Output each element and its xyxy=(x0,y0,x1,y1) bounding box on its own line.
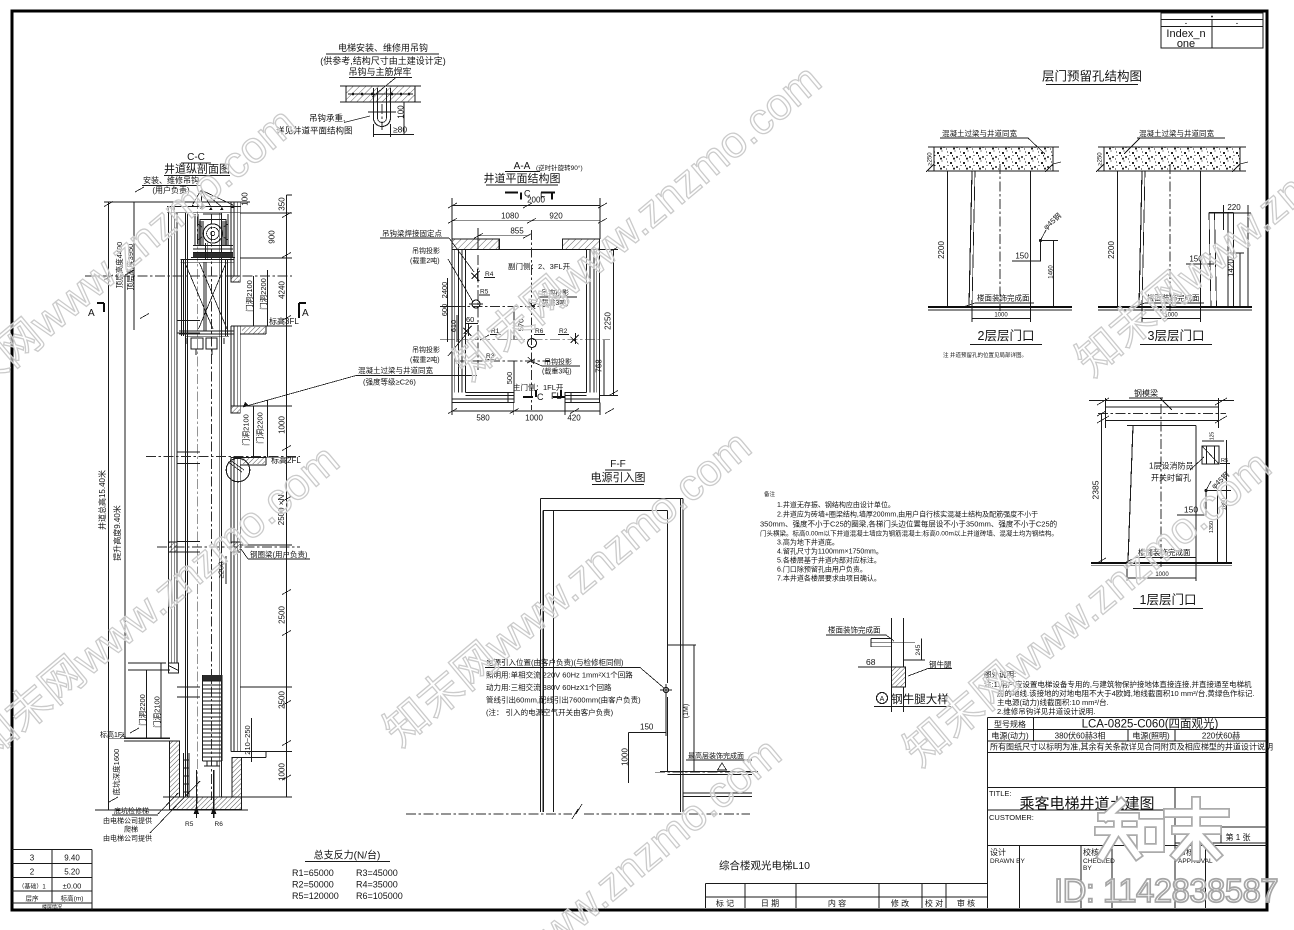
svg-text:(供参考,结构尺寸由土建设计定): (供参考,结构尺寸由土建设计定) xyxy=(320,55,446,66)
svg-text:动力用:三相交流 380V 60HzX1个回路: 动力用:三相交流 380V 60HzX1个回路 xyxy=(486,682,612,692)
svg-text:混凝土过梁与井道同宽: 混凝土过梁与井道同宽 xyxy=(1139,128,1214,138)
svg-text:1层层门口: 1层层门口 xyxy=(1140,592,1197,607)
svg-text:125: 125 xyxy=(1210,432,1216,441)
bottom wall with door gap xyxy=(452,393,600,403)
svg-text:R5: R5 xyxy=(480,289,489,296)
svg-text:门洞2200: 门洞2200 xyxy=(256,412,265,444)
small hole with hatch xyxy=(1202,446,1219,464)
svg-text:LCA-0825-C060(四面观光): LCA-0825-C060(四面观光) xyxy=(1082,717,1219,731)
svg-text:门洞2200: 门洞2200 xyxy=(259,278,268,310)
svg-text:2200: 2200 xyxy=(937,241,946,259)
svg-text:2200: 2200 xyxy=(1107,241,1116,259)
hook U shape xyxy=(374,88,391,127)
door outline xyxy=(1127,425,1196,427)
svg-text:9.40: 9.40 xyxy=(64,854,80,863)
level dash-dot lines xyxy=(85,275,292,277)
svg-text:吊钩投影: 吊钩投影 xyxy=(412,246,440,255)
svg-text:2.井道应为砖墙+圈梁结构,墙厚200mm,由用户自行核实混: 2.井道应为砖墙+圈梁结构,墙厚200mm,由用户自行核实混凝土结构及配筋强度不… xyxy=(777,510,1038,519)
svg-text:层门预留孔结构图: 层门预留孔结构图 xyxy=(1042,69,1142,84)
right dims xyxy=(604,312,613,330)
1FL floor left xyxy=(124,738,170,741)
column/pipe xyxy=(892,618,904,712)
知末 logo (bottom right) xyxy=(1099,801,1225,857)
svg-text:R5=120000: R5=120000 xyxy=(292,891,339,901)
svg-text:2层层门口: 2层层门口 xyxy=(978,328,1035,343)
svg-text:门洞2100: 门洞2100 xyxy=(245,280,254,312)
svg-text:标高3FL: 标高3FL xyxy=(269,316,299,326)
svg-text:门头横梁。标高0.00m以下井道混凝土墙应为钢筋混凝土;标高: 门头横梁。标高0.00m以下井道混凝土墙应为钢筋混凝土;标高0.00m以上井道砖… xyxy=(760,529,1058,538)
svg-text:电源引入图: 电源引入图 xyxy=(591,470,646,484)
svg-text:由电梯公司提供: 由电梯公司提供 xyxy=(103,834,152,843)
svg-text:2: 2 xyxy=(30,868,35,877)
svg-text:1000: 1000 xyxy=(278,763,287,781)
svg-text:R6: R6 xyxy=(215,821,224,828)
ropes xyxy=(206,243,208,259)
svg-text:R6=105000: R6=105000 xyxy=(356,891,403,901)
svg-text:(载重2吨): (载重2吨) xyxy=(410,355,440,364)
C FL marks bottom xyxy=(523,390,565,397)
shaft outline xyxy=(541,499,544,813)
2385 dim xyxy=(1091,480,1101,499)
left dim chain xyxy=(108,202,110,810)
concrete slab with rebar xyxy=(346,86,415,102)
car diagonal braces xyxy=(185,263,227,329)
svg-text:总支反力(N/台): 总支反力(N/台) xyxy=(314,849,381,862)
dim ≥200 xyxy=(217,562,226,579)
svg-text:备注: 备注 xyxy=(764,490,776,498)
guide rails xyxy=(186,213,188,797)
svg-text:混凝土过梁与井道同宽: 混凝土过梁与井道同宽 xyxy=(942,128,1017,138)
svg-text:100: 100 xyxy=(241,192,250,206)
index_n one box top right xyxy=(1161,13,1263,50)
bottom dims xyxy=(452,410,600,412)
1460 dim xyxy=(1049,265,1055,279)
svg-text:标 记: 标 记 xyxy=(716,898,734,908)
svg-text:注 井道预留孔的位置见局部详图。: 注 井道预留孔的位置见局部详图。 xyxy=(943,351,1027,359)
svg-text:2385: 2385 xyxy=(1091,480,1101,499)
svg-text:所有图纸尺寸以标明为准,其余有关条款详见合同附页及相应梯型的: 所有图纸尺寸以标明为准,其余有关条款详见合同附页及相应梯型的井道设计说明 xyxy=(990,742,1273,752)
shaft walls: top hatched blocks xyxy=(452,239,499,249)
svg-text:照明用:单相交流 220V 60Hz 1mm²X1个回路: 照明用:单相交流 220V 60Hz 1mm²X1个回路 xyxy=(486,670,633,680)
svg-text:钢圈梁(用户负责): 钢圈梁(用户负责) xyxy=(250,549,308,559)
svg-text:型号规格: 型号规格 xyxy=(994,719,1026,729)
car floor / safety xyxy=(179,330,234,332)
svg-text:设计: 设计 xyxy=(990,847,1006,857)
svg-text:由电梯公司提供: 由电梯公司提供 xyxy=(103,816,152,825)
svg-text:4240: 4240 xyxy=(278,281,287,299)
svg-text:楼层情况: 楼层情况 xyxy=(42,904,62,911)
svg-text:2500: 2500 xyxy=(278,606,287,624)
svg-text:1000: 1000 xyxy=(994,313,1008,319)
svg-text:内 容: 内 容 xyxy=(828,898,846,908)
svg-text:CUSTOMER:: CUSTOMER: xyxy=(989,813,1034,822)
svg-text:ID: 1142838587: ID: 1142838587 xyxy=(1054,872,1278,909)
leader fan to hooks xyxy=(193,190,233,207)
svg-text:井道平面结构图: 井道平面结构图 xyxy=(484,171,561,185)
svg-text:5.各楼层基于井道内部对应标注。: 5.各楼层基于井道内部对应标注。 xyxy=(777,556,881,565)
right wall verticals (gaps at 3F and 2F doors) xyxy=(231,202,240,276)
wall outlines xyxy=(452,239,466,403)
2F door head block xyxy=(231,406,240,413)
svg-text:R3=45000: R3=45000 xyxy=(356,868,398,878)
top floor slab right xyxy=(660,772,758,797)
svg-text:1080: 1080 xyxy=(501,212,519,221)
svg-text:2000: 2000 xyxy=(527,196,545,205)
2FL slab right with sill detail circle xyxy=(231,457,266,465)
svg-text:修 改: 修 改 xyxy=(891,898,909,908)
svg-text:7.本井道各楼层要求由项目确认。: 7.本井道各楼层要求由项目确认。 xyxy=(777,574,881,583)
svg-text:68: 68 xyxy=(866,657,876,667)
bottom break line xyxy=(406,813,572,815)
bracket hatched xyxy=(892,667,906,687)
svg-text:R1=65000: R1=65000 xyxy=(292,868,334,878)
svg-text:楼面装饰完成面: 楼面装饰完成面 xyxy=(828,625,881,635)
svg-text:开关时留孔: 开关时留孔 xyxy=(1151,473,1191,483)
1F door dims xyxy=(146,670,148,738)
pit ladder xyxy=(184,753,190,797)
svg-text:井道总高15.40米: 井道总高15.40米 xyxy=(97,470,107,530)
svg-text:≥250: ≥250 xyxy=(1098,152,1104,166)
svg-text:FL: FL xyxy=(551,391,562,401)
svg-text:(强度等级≥C26): (强度等级≥C26) xyxy=(363,377,416,387)
svg-text:混凝土过梁与井道同宽: 混凝土过梁与井道同宽 xyxy=(358,365,433,375)
svg-text:标高(m): 标高(m) xyxy=(61,894,84,903)
svg-text:380伏60赫3相: 380伏60赫3相 xyxy=(1055,731,1106,741)
svg-text:电源(动力): 电源(动力) xyxy=(991,731,1029,741)
hook projection circles xyxy=(472,300,480,308)
1000 dim xyxy=(971,307,973,322)
centerlines xyxy=(531,230,533,410)
svg-text:审 核: 审 核 xyxy=(957,898,975,908)
svg-text:F-F: F-F xyxy=(610,459,626,470)
svg-text:日 期: 日 期 xyxy=(761,899,779,908)
3FL slab right xyxy=(231,326,266,334)
svg-text:1000: 1000 xyxy=(278,416,287,434)
centerlines xyxy=(196,199,198,812)
svg-text:A: A xyxy=(302,308,309,319)
C F section marks top xyxy=(505,193,555,200)
svg-text:门洞2100: 门洞2100 xyxy=(153,696,162,728)
svg-text:吊钩梁焊接固定点: 吊钩梁焊接固定点 xyxy=(382,228,442,238)
svg-text:A-A: A-A xyxy=(514,161,531,172)
svg-text:房的地线.该接地的对地电阻不大于4欧姆,地线截面积10 mm: 房的地线.该接地的对地电阻不大于4欧姆,地线截面积10 mm²/台,黄绿色作标记… xyxy=(997,688,1255,698)
svg-text:电梯安装、维修用吊钩: 电梯安装、维修用吊钩 xyxy=(338,42,428,53)
1F door head block xyxy=(169,663,179,673)
svg-text:220伏60赫: 220伏60赫 xyxy=(1202,731,1240,741)
svg-text:C: C xyxy=(537,392,544,402)
ceiling slab xyxy=(167,206,241,208)
title xyxy=(877,693,888,704)
dim 100 xyxy=(403,102,405,134)
svg-text:350: 350 xyxy=(278,197,287,211)
svg-text:2500: 2500 xyxy=(278,691,287,709)
svg-text:-: - xyxy=(1236,19,1239,28)
buffer spring xyxy=(203,675,223,681)
dim 210~250 xyxy=(243,725,252,754)
svg-text:245: 245 xyxy=(915,644,922,655)
svg-text:1层设消防员: 1层设消防员 xyxy=(1149,461,1193,471)
svg-text:100: 100 xyxy=(397,105,406,119)
3F door dims xyxy=(253,276,255,326)
svg-text:768: 768 xyxy=(595,359,604,373)
buffer reaction arrows R5 R6 xyxy=(196,770,213,818)
machine bedplate and body xyxy=(191,246,235,258)
power entry point xyxy=(663,687,668,692)
svg-text:(1M): (1M) xyxy=(683,704,690,718)
machine sheave U1 xyxy=(203,224,222,243)
svg-text:3.高为地下井道底。: 3.高为地下井道底。 xyxy=(777,538,839,547)
svg-text:TITLE:: TITLE: xyxy=(989,789,1012,798)
svg-text:5.20: 5.20 xyxy=(64,868,80,877)
svg-text:DRAWN BY: DRAWN BY xyxy=(990,858,1025,865)
svg-text:2.维修吊钩详见井道设计说明.: 2.维修吊钩详见井道设计说明. xyxy=(997,706,1095,716)
svg-text:（基础）1: （基础）1 xyxy=(18,883,46,891)
svg-text:底坑检修梯: 底坑检修梯 xyxy=(114,806,149,815)
svg-text:层序: 层序 xyxy=(26,894,40,903)
floor flange xyxy=(871,639,915,647)
right wall pit hatched xyxy=(232,758,242,798)
ring beam blocks 圈梁 xyxy=(231,542,240,552)
svg-text:855: 855 xyxy=(510,227,524,236)
svg-text:楼面装饰完成面: 楼面装饰完成面 xyxy=(977,293,1030,303)
svg-text:门洞2200: 门洞2200 xyxy=(138,694,147,726)
left dims rotated xyxy=(440,282,449,299)
right dims xyxy=(1222,498,1228,510)
svg-text:≥80: ≥80 xyxy=(393,125,407,135)
section A marks xyxy=(97,303,104,312)
svg-text:±0.00: ±0.00 xyxy=(63,882,82,891)
left wall below 1FL hatched xyxy=(170,741,180,797)
svg-text:150: 150 xyxy=(640,723,654,732)
svg-text:1000: 1000 xyxy=(525,414,543,423)
svg-text:one: one xyxy=(1177,38,1195,50)
svg-text:底坑深度1600: 底坑深度1600 xyxy=(111,749,121,796)
svg-text:6.门口除预留孔由用户负责。: 6.门口除预留孔由用户负责。 xyxy=(777,565,867,574)
2F door dims xyxy=(253,406,255,457)
svg-text:1.井道无存振、钢结构应由设计单位。: 1.井道无存振、钢结构应由设计单位。 xyxy=(777,500,895,509)
svg-text:-: - xyxy=(1185,19,1188,28)
svg-text:350mm、强度不小于C25的圈梁,各梯门头边位置每层设不小: 350mm、强度不小于C25的圈梁,各梯门头边位置每层设不小于350mm、强度不… xyxy=(760,519,1057,529)
svg-text:校 对: 校 对 xyxy=(925,898,943,908)
svg-text:420: 420 xyxy=(567,414,581,423)
pit floor hatched xyxy=(170,797,242,810)
left rail brackets at levels xyxy=(177,321,200,698)
svg-text:580: 580 xyxy=(476,414,490,423)
svg-text:吊钩投影: 吊钩投影 xyxy=(412,345,440,354)
svg-text:210~250: 210~250 xyxy=(243,725,252,754)
svg-text:1000: 1000 xyxy=(621,748,630,766)
svg-text:钢模梁: 钢模梁 xyxy=(1134,388,1158,398)
svg-text:门洞2100: 门洞2100 xyxy=(242,414,251,446)
right offset lines xyxy=(668,644,697,646)
svg-text:R4=35000: R4=35000 xyxy=(356,880,398,890)
anchor cross marks with arrows xyxy=(472,269,480,281)
svg-text:R2=50000: R2=50000 xyxy=(292,880,334,890)
car frame xyxy=(181,259,234,261)
svg-text:A: A xyxy=(880,696,885,703)
svg-text:(载重2吨): (载重2吨) xyxy=(410,256,440,265)
svg-text:电源(照明): 电源(照明) xyxy=(1132,731,1170,741)
φ45钢 label xyxy=(1041,210,1063,231)
svg-text:BY: BY xyxy=(1083,865,1092,872)
svg-text:R2: R2 xyxy=(559,328,568,335)
svg-text:综合楼观光电梯L10: 综合楼观光电梯L10 xyxy=(719,859,810,872)
svg-text:标高1FL: 标高1FL xyxy=(100,730,126,739)
svg-text:3: 3 xyxy=(30,854,35,863)
svg-text:60: 60 xyxy=(466,315,474,324)
svg-text:R4: R4 xyxy=(485,271,494,278)
svg-text:2250: 2250 xyxy=(604,312,613,330)
door outline xyxy=(969,171,972,307)
svg-text:钢牛腿: 钢牛腿 xyxy=(929,659,952,669)
1FL slab right xyxy=(231,752,292,758)
svg-text:提升高度9.40米: 提升高度9.40米 xyxy=(112,505,122,561)
svg-text:(载重3吨): (载重3吨) xyxy=(542,367,572,376)
svg-text:吊钩承重,: 吊钩承重, xyxy=(309,113,345,123)
svg-text:吊钩投影: 吊钩投影 xyxy=(544,357,572,366)
svg-text:吊钩与主筋焊牢: 吊钩与主筋焊牢 xyxy=(348,66,411,77)
svg-text:900: 900 xyxy=(268,230,277,244)
svg-text:(逆时针旋转90°): (逆时针旋转90°) xyxy=(536,163,583,172)
svg-text:爬梯: 爬梯 xyxy=(124,825,138,834)
svg-text:第 1 张: 第 1 张 xyxy=(1226,832,1251,842)
steel beam xyxy=(1106,406,1219,408)
bottom pit depth label xyxy=(111,749,121,796)
svg-text:150: 150 xyxy=(1015,252,1029,261)
svg-text:4.留孔尺寸为1100mm×1750mm。: 4.留孔尺寸为1100mm×1750mm。 xyxy=(777,547,883,556)
svg-text:(注： 引入的电源空气开关由客户负责): (注： 引入的电源空气开关由客户负责) xyxy=(486,707,614,717)
svg-text:R5: R5 xyxy=(185,821,194,828)
dims xyxy=(915,644,922,655)
left wall verticals xyxy=(169,207,178,664)
svg-text:920: 920 xyxy=(549,212,563,221)
svg-text:≥250: ≥250 xyxy=(928,152,934,166)
svg-text:管线引出60mm,配线引出7600mm(由客户负责): 管线引出60mm,配线引出7600mm(由客户负责) xyxy=(486,695,641,705)
right dim chain xyxy=(286,195,288,797)
